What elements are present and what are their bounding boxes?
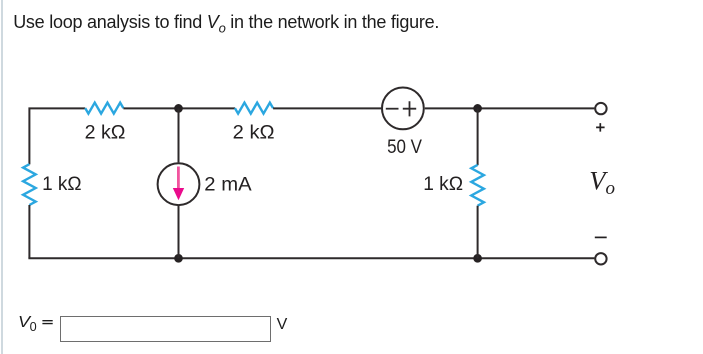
svg-text:1 kΩ: 1 kΩ	[42, 173, 82, 195]
svg-text:1 kΩ: 1 kΩ	[423, 173, 463, 195]
svg-text:Vo: Vo	[589, 166, 615, 200]
svg-text:2 mA: 2 mA	[204, 173, 251, 195]
junction node top-middle	[174, 104, 183, 113]
resistor R1 2 kOhm (top left, horizontal)	[85, 103, 126, 144]
terminal top (open circle)	[595, 103, 606, 114]
wire middle branch lower	[178, 206, 180, 258]
resistor R4 1 kOhm (right branch, vertical)	[423, 165, 484, 206]
wire voltage source to top terminal (through top-right node)	[425, 107, 595, 109]
answer unit V	[277, 316, 288, 334]
wire right branch lower	[477, 206, 479, 259]
current source I1 2 mA	[158, 163, 252, 205]
wire bottom rail	[28, 257, 594, 259]
junction node bottom-right	[473, 254, 482, 263]
wire right branch upper	[477, 108, 479, 165]
voltage source V1 50V	[382, 88, 424, 159]
wire left branch lower	[28, 205, 30, 258]
wire middle branch upper	[178, 108, 180, 162]
minus output label	[595, 236, 607, 238]
equals sign of answer row	[42, 321, 52, 324]
terminal bottom (open circle)	[595, 253, 606, 264]
resistor R2 2 kOhm (top middle, horizontal)	[233, 103, 275, 144]
wire R1 to R2 (through top-middle node)	[123, 107, 235, 109]
answer input box	[60, 316, 271, 342]
junction node top-right	[473, 104, 482, 113]
wire top-left (left branch upper + top run to R1)	[28, 108, 85, 164]
junction node bottom-middle	[174, 254, 183, 263]
wire R2 to voltage source	[273, 107, 381, 109]
svg-text:50 V: 50 V	[387, 136, 422, 158]
svg-text:2 kΩ: 2 kΩ	[233, 121, 275, 143]
plus output label	[596, 123, 605, 132]
svg-text:2 kΩ: 2 kΩ	[85, 121, 126, 143]
resistor R3 1 kOhm (left branch, vertical)	[23, 164, 82, 205]
answer label V0 =	[18, 314, 30, 332]
